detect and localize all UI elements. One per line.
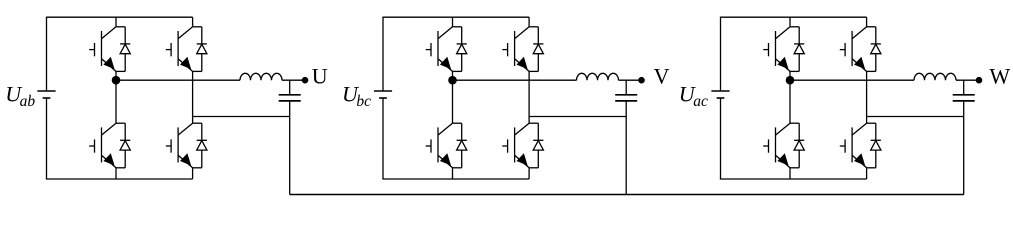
wire: right leg upper segment module 3 bbox=[866, 17, 868, 27]
diode Q3D (anti-parallel) bbox=[116, 123, 130, 168]
wire: left leg emitter stub module 2 bbox=[452, 168, 454, 179]
transistor Q5 (IGBT) bbox=[426, 27, 453, 72]
wire: inductor to output node module 3 bbox=[956, 79, 979, 81]
wire: right leg upper segment module 2 bbox=[528, 17, 530, 27]
capacitor C3 bbox=[953, 95, 975, 101]
voltage source Ubc (battery) bbox=[374, 91, 392, 98]
wire: bridge output to inductor module 1 bbox=[116, 79, 240, 81]
transistor Q11 (IGBT) bbox=[763, 123, 790, 168]
node W (output terminal) bbox=[976, 77, 983, 84]
svg-text:U: U bbox=[312, 64, 328, 89]
wire: left leg emitter stub module 1 bbox=[115, 168, 117, 179]
wire: right leg mid segment module 1 bbox=[192, 71, 194, 123]
transistor Q9 (IGBT) bbox=[763, 27, 790, 72]
voltage source Uac (battery) bbox=[711, 91, 729, 98]
wire: left leg mid segment module 1 bbox=[115, 71, 117, 123]
wire: right leg upper segment module 1 bbox=[192, 17, 194, 27]
wire: bridge output to inductor module 3 bbox=[790, 79, 914, 81]
capacitor C2 bbox=[615, 95, 637, 101]
wire: right leg lower segment module 2 bbox=[528, 168, 530, 179]
wire: right leg mid segment module 3 bbox=[866, 71, 868, 123]
capacitor C1 bbox=[279, 95, 301, 101]
wire: bridge output to inductor module 2 bbox=[453, 79, 577, 81]
transistor Q1 (IGBT) bbox=[89, 27, 116, 72]
wire: left rail upper module 3 bbox=[720, 17, 722, 91]
wire: tap from right leg to capacitor bottom module 2 bbox=[529, 116, 626, 118]
wire: capacitor top stub module 1 bbox=[289, 80, 291, 94]
inductor L3 bbox=[914, 73, 956, 80]
wire: top rail module 3 bbox=[721, 16, 867, 18]
diode Q5D (anti-parallel) bbox=[453, 27, 467, 72]
transistor Q10 (IGBT) bbox=[840, 27, 867, 72]
diode Q9D (anti-parallel) bbox=[790, 27, 804, 72]
wire: capacitor bottom to common bus module 3 bbox=[963, 101, 965, 195]
wire: left rail upper module 1 bbox=[46, 17, 48, 91]
wire: capacitor bottom to common bus module 2 bbox=[625, 101, 627, 195]
wire: capacitor bottom to common bus module 1 bbox=[289, 101, 291, 195]
diode Q8D (anti-parallel) bbox=[529, 123, 543, 168]
diode Q11D (anti-parallel) bbox=[790, 123, 804, 168]
wire: tap from right leg to capacitor bottom module 3 bbox=[867, 116, 964, 118]
wire: inductor to output node module 1 bbox=[282, 79, 305, 81]
wire: top rail module 1 bbox=[47, 16, 193, 18]
wire: left rail lower module 1 bbox=[46, 98, 48, 179]
wire: right leg lower segment module 3 bbox=[866, 168, 868, 179]
wire: tap from right leg to capacitor bottom module 1 bbox=[193, 116, 290, 118]
wire: bottom rail module 3 bbox=[720, 178, 867, 180]
diode Q1D (anti-parallel) bbox=[116, 27, 130, 72]
wire: left rail lower module 3 bbox=[720, 98, 722, 179]
wire: bottom rail module 1 bbox=[46, 178, 193, 180]
wire: left leg mid segment module 2 bbox=[452, 71, 454, 123]
transistor Q3 (IGBT) bbox=[89, 123, 116, 168]
wire: right leg mid segment module 2 bbox=[528, 71, 530, 123]
transistor Q2 (IGBT) bbox=[166, 27, 193, 72]
wire: left leg collector stub module 1 bbox=[115, 17, 117, 27]
transistor Q4 (IGBT) bbox=[166, 123, 193, 168]
wire: left leg collector stub module 2 bbox=[452, 17, 454, 27]
diode Q10D (anti-parallel) bbox=[867, 27, 881, 72]
node U (output terminal) bbox=[302, 77, 309, 84]
diode Q2D (anti-parallel) bbox=[193, 27, 207, 72]
wire: left leg emitter stub module 3 bbox=[789, 168, 791, 179]
transistor Q12 (IGBT) bbox=[840, 123, 867, 168]
wire: left leg mid segment module 3 bbox=[789, 71, 791, 123]
wire: inductor to output node module 2 bbox=[619, 79, 642, 81]
transistor Q6 (IGBT) bbox=[502, 27, 529, 72]
node: bridge midpoint junction module 1 bbox=[112, 76, 121, 85]
wire: left rail lower module 2 bbox=[382, 98, 384, 179]
transistor Q8 (IGBT) bbox=[502, 123, 529, 168]
diode Q4D (anti-parallel) bbox=[193, 123, 207, 168]
svg-text:W: W bbox=[989, 64, 1010, 89]
inductor L2 bbox=[577, 73, 619, 80]
wire: left rail upper module 2 bbox=[382, 17, 384, 91]
diode Q12D (anti-parallel) bbox=[867, 123, 881, 168]
wire: capacitor top stub module 2 bbox=[625, 80, 627, 94]
diode Q6D (anti-parallel) bbox=[529, 27, 543, 72]
node: bridge midpoint junction module 2 bbox=[448, 76, 457, 85]
node: bridge midpoint junction module 3 bbox=[786, 76, 795, 85]
wire: left leg collector stub module 3 bbox=[789, 17, 791, 27]
inductor L1 bbox=[240, 73, 282, 80]
wire: right leg lower segment module 1 bbox=[192, 168, 194, 179]
voltage source Uab (battery) bbox=[37, 91, 55, 98]
diode Q7D (anti-parallel) bbox=[453, 123, 467, 168]
svg-text:V: V bbox=[654, 64, 670, 89]
node V (output terminal) bbox=[638, 77, 645, 84]
wire: top rail module 2 bbox=[383, 16, 529, 18]
transistor Q7 (IGBT) bbox=[426, 123, 453, 168]
wire: bottom rail module 2 bbox=[382, 178, 529, 180]
wire: capacitor top stub module 3 bbox=[963, 80, 965, 94]
wire: common neutral bus bbox=[290, 194, 964, 196]
